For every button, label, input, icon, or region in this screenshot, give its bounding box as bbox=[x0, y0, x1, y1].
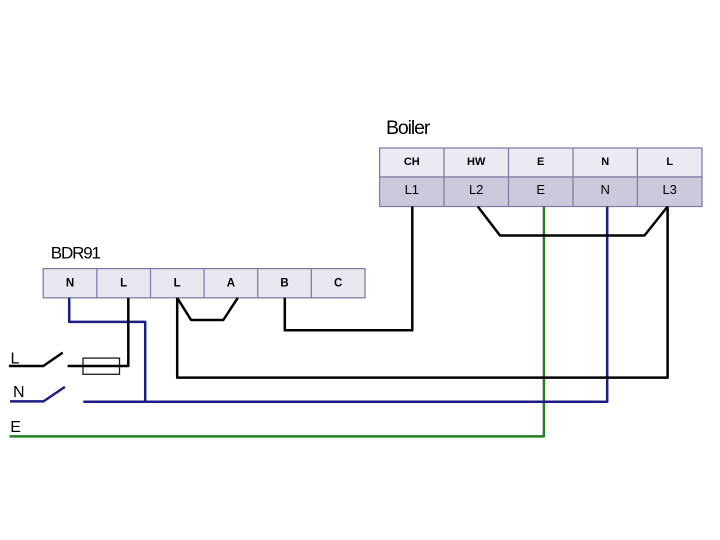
wire neutral pigtail BDR91 N (blue) bbox=[69, 298, 145, 402]
svg-text:L: L bbox=[666, 156, 673, 168]
svg-text:L2: L2 bbox=[469, 182, 483, 197]
svg-text:B: B bbox=[280, 277, 288, 289]
svg-text:N: N bbox=[601, 182, 610, 197]
svg-text:Boiler: Boiler bbox=[386, 117, 431, 139]
fuse F1 bbox=[83, 358, 120, 374]
svg-text:BDR91: BDR91 bbox=[51, 244, 101, 263]
wire BDR91 L through fuse to switch (black) bbox=[68, 298, 129, 366]
wire link BDR91 L to A (black) bbox=[177, 298, 238, 320]
svg-text:C: C bbox=[334, 277, 342, 289]
svg-text:N: N bbox=[601, 156, 609, 168]
svg-text:CH: CH bbox=[404, 156, 420, 168]
svg-text:L1: L1 bbox=[405, 182, 419, 197]
wire boiler CH/L1 to BDR91 B (black) bbox=[285, 207, 413, 331]
switch N (mains neutral, blue) bbox=[10, 387, 65, 402]
switch L (mains live, black) bbox=[9, 353, 63, 366]
terminal block Boiler bbox=[380, 148, 702, 207]
svg-text:E: E bbox=[537, 156, 544, 168]
svg-text:E: E bbox=[536, 182, 545, 197]
wire boiler L3 to BDR91 L switched (black) bbox=[177, 207, 667, 378]
svg-text:A: A bbox=[227, 277, 235, 289]
wire link boiler L2 to L3 (black) bbox=[478, 207, 668, 236]
svg-text:L: L bbox=[120, 277, 127, 289]
svg-text:N: N bbox=[13, 384, 25, 401]
svg-text:L3: L3 bbox=[662, 182, 676, 197]
svg-text:E: E bbox=[10, 419, 21, 436]
terminal block BDR91 bbox=[43, 269, 365, 298]
svg-text:L: L bbox=[174, 277, 181, 289]
wire neutral N mains (blue) bbox=[83, 207, 607, 402]
svg-text:N: N bbox=[66, 277, 74, 289]
svg-text:HW: HW bbox=[467, 156, 486, 168]
wire earth E (green) bbox=[10, 207, 544, 437]
